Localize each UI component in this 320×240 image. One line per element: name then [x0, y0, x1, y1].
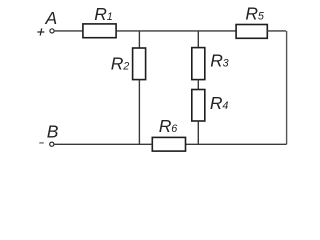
svg-text:A: A	[45, 8, 58, 28]
wire: terminal A to R1	[55, 30, 83, 32]
terminal B circle	[50, 142, 54, 146]
resistor R6	[152, 137, 185, 151]
wire: R3 to R4	[197, 80, 199, 90]
resistor R5	[236, 25, 267, 39]
plus sign (polarity +)	[37, 28, 44, 35]
svg-text:B: B	[47, 122, 59, 142]
resistor R1	[83, 24, 116, 38]
wire: R1 to R5 along top	[116, 30, 236, 32]
resistor R2	[133, 48, 146, 80]
wire: top junction down to R3	[197, 31, 199, 48]
wire: R6 to terminal B	[54, 143, 152, 145]
wire: R5 to top-right corner	[267, 30, 286, 32]
resistor R3	[192, 48, 205, 80]
terminal A circle	[50, 29, 54, 33]
wire: bottom right to R6	[186, 143, 287, 145]
resistor R4	[192, 90, 205, 122]
wire: right side vertical	[286, 31, 288, 144]
wire: top junction down to R2	[138, 31, 140, 48]
wire: R2 down to bottom wire	[138, 80, 140, 145]
wire: R4 down to bottom wire	[197, 121, 199, 144]
minus sign (polarity -)	[39, 142, 43, 144]
